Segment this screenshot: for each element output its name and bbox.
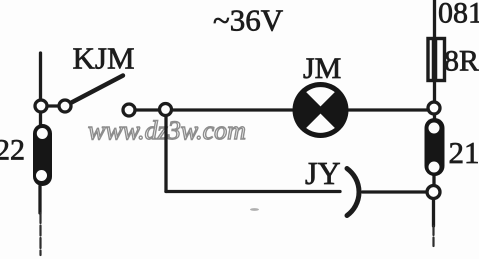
svg-text:JM: JM xyxy=(303,52,341,85)
svg-text:21: 21 xyxy=(449,135,479,170)
svg-text:8R: 8R xyxy=(444,45,479,78)
svg-text:KJM: KJM xyxy=(73,41,135,76)
svg-text:~36V: ~36V xyxy=(213,3,284,38)
svg-text:JY: JY xyxy=(305,155,341,191)
svg-text:22: 22 xyxy=(0,134,25,167)
svg-text:081: 081 xyxy=(438,0,479,30)
